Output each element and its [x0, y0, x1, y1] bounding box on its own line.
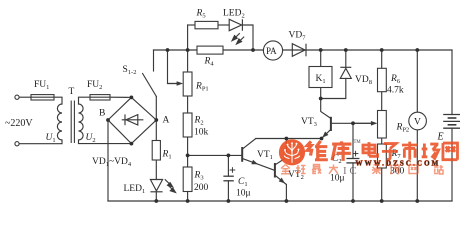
wire FU1 to transformer primary [54, 97, 62, 104]
RP1 wiper arrow [168, 81, 184, 86]
char da [329, 165, 338, 174]
wire bottom rail [108, 200, 452, 202]
diode VD7 [292, 44, 306, 57]
svg-text:PA: PA [266, 46, 277, 56]
bridge rectifier VD1~VD4 [108, 97, 156, 143]
wire FU2 to bridge top [110, 96, 131, 98]
char chang [422, 144, 439, 160]
wire top rail left of PA [154, 49, 264, 51]
svg-text:U2: U2 [86, 133, 96, 144]
capacitor C2 polarity plus [353, 151, 359, 157]
wire LED2 to right riser [242, 25, 253, 50]
svg-text:E: E [437, 132, 444, 143]
wire VT2 emitter to bottom rail [285, 185, 287, 202]
svg-text:TM: TM [354, 140, 362, 145]
svg-text:R4: R4 [204, 57, 215, 68]
wire node A to R1 [155, 120, 157, 141]
svg-text:T: T [69, 87, 75, 97]
wire C1 top lead [227, 155, 229, 176]
svg-text:10μ: 10μ [236, 189, 251, 199]
wire VT1 VT2 collector bus [256, 138, 322, 140]
wire transformer secondary bottom to bridge bottom [79, 140, 132, 144]
wire VT2 collector riser [275, 139, 287, 166]
wire K1 to VD8 anode [321, 78, 346, 98]
ammeter PA body [263, 41, 282, 60]
resistor R7 [378, 144, 387, 168]
svg-text:VT3: VT3 [301, 117, 317, 128]
VT2 emitter arrowhead [279, 178, 287, 186]
transistor VT3 [322, 117, 331, 139]
char shi [402, 142, 418, 160]
svg-text:VT1: VT1 [257, 150, 273, 161]
potentiometer RP2 body [378, 111, 387, 139]
svg-text:R1: R1 [162, 150, 172, 161]
transistor VT2 [275, 163, 287, 185]
RP2 wiper arrow [353, 121, 377, 126]
terminal lower mains [15, 142, 19, 146]
svg-text:RP2: RP2 [396, 123, 410, 134]
transformer T primary winding U1 [57, 104, 62, 140]
svg-text:~220V: ~220V [5, 118, 33, 129]
wire R2 to node [187, 137, 189, 155]
relay coil K1 [309, 67, 332, 88]
svg-text:10k: 10k [194, 128, 209, 138]
svg-text:R5: R5 [196, 9, 206, 20]
wire C1 bottom lead [227, 181, 229, 201]
wire R7 to bottom rail [381, 168, 383, 201]
wire base feed to VT1 [188, 154, 242, 156]
wire RP1 to R2 [187, 96, 189, 113]
transistor VT1 [242, 139, 275, 171]
LED2 emission arrows [232, 33, 244, 44]
svg-text:FU1: FU1 [34, 80, 49, 91]
svg-text:LED2: LED2 [223, 9, 245, 20]
svg-text:4.7k: 4.7k [387, 86, 404, 96]
svg-text:RP1: RP1 [195, 82, 209, 93]
diode VD8 [340, 67, 351, 78]
wire R3 to bottom rail [187, 192, 189, 202]
svg-text:S1-2: S1-2 [123, 65, 137, 76]
svg-text:FU2: FU2 [87, 80, 102, 91]
svg-text:I C: I C [343, 165, 357, 177]
svg-text:WWW.DZSC.COM: WWW.DZSC.COM [356, 160, 441, 168]
svg-text:U1: U1 [46, 133, 56, 144]
fuse FU2 [90, 95, 110, 100]
LED LED1 [150, 180, 162, 192]
wire E battery bottom lead [451, 128, 453, 201]
wire VT3 collector [321, 99, 331, 119]
terminal upper mains [15, 95, 19, 99]
transformer T core [71, 101, 74, 144]
wire top rail right of PA [283, 49, 453, 51]
wire R5 to LED2 [218, 24, 229, 26]
wire switch blade (open) S1-2 [143, 74, 157, 97]
wire transformer secondary top to FU2 [79, 97, 91, 104]
wire LED1 to bottom rail [155, 192, 157, 201]
wire mains bottom lead [19, 140, 62, 144]
resistor R1 [152, 141, 160, 161]
LED1 emission arrows [165, 179, 176, 192]
char ku [332, 141, 351, 160]
transformer T secondary winding U2 [79, 104, 84, 140]
wire voltmeter top lead [416, 50, 418, 112]
wire K1 bottom lead [320, 88, 322, 99]
char wei [307, 141, 328, 160]
wire C2 top lead [352, 123, 354, 158]
wire R5 branch top left [188, 24, 195, 26]
wire RP2 to R7 [381, 138, 383, 144]
svg-text:A: A [163, 116, 170, 126]
char wang2 [409, 165, 418, 174]
wire VD8 cathode to rail [345, 50, 347, 67]
capacitor C1 [223, 176, 233, 181]
resistor R2 [183, 113, 192, 137]
watermark small characters row [281, 165, 443, 175]
wire rail down to R6 [381, 50, 383, 68]
svg-text:B: B [99, 109, 105, 119]
char zi [382, 144, 398, 160]
char quan [281, 165, 290, 174]
svg-text:R6: R6 [390, 74, 401, 85]
svg-text:VD8: VD8 [355, 75, 372, 86]
voltmeter V body [409, 112, 427, 130]
char cai [372, 165, 381, 174]
battery E cells [443, 115, 460, 129]
wire switch fixed stub [153, 50, 155, 71]
char qiu [296, 165, 306, 174]
wire R5 branch left riser [187, 25, 189, 50]
wire node B column down [107, 120, 109, 201]
char dian [363, 142, 378, 156]
char zhan [434, 165, 443, 174]
svg-text:VD1~VD4: VD1~VD4 [92, 157, 132, 168]
svg-text:VD7: VD7 [289, 31, 307, 42]
resistor R4 [197, 46, 223, 54]
wire blade to node A [155, 97, 157, 121]
char wang [443, 143, 458, 160]
svg-text:V: V [414, 118, 421, 128]
wire VT3 base to RP2 wiper [332, 122, 372, 124]
wire mains top lead [19, 96, 31, 98]
wire node to R3 [187, 155, 189, 167]
watermark big characters [307, 141, 457, 161]
fuse FU1 [31, 95, 54, 100]
svg-text:VT2: VT2 [288, 170, 304, 181]
resistor R5 [195, 21, 218, 28]
svg-text:200: 200 [194, 183, 209, 193]
svg-text:C1: C1 [238, 177, 248, 188]
char zui [312, 165, 321, 174]
svg-text:R2: R2 [194, 116, 204, 127]
capacitor C2 [346, 159, 359, 163]
svg-text:LED1: LED1 [124, 184, 146, 195]
wire K1 top lead [320, 50, 322, 67]
VT1 emitter arrowhead [251, 160, 258, 167]
capacitor C1 polarity plus [230, 167, 236, 173]
wire rail down to RP1 top [187, 50, 189, 72]
wire R1 to LED1 [155, 160, 157, 180]
resistor R6 [378, 68, 387, 91]
VT3 emitter arrowhead [321, 132, 329, 140]
wire E battery feed down [451, 50, 453, 115]
wire C2 bottom lead [352, 163, 354, 201]
wire voltmeter bottom lead [416, 130, 418, 201]
resistor R3 [183, 167, 192, 192]
LED LED2 [229, 19, 242, 30]
wire R6 to RP2 [381, 92, 383, 111]
svg-text:R3: R3 [194, 171, 204, 182]
wire RP1 wiper feed [168, 50, 178, 84]
watermark logo disc [279, 139, 305, 165]
potentiometer RP1 body [183, 72, 192, 96]
char gou [390, 165, 399, 173]
